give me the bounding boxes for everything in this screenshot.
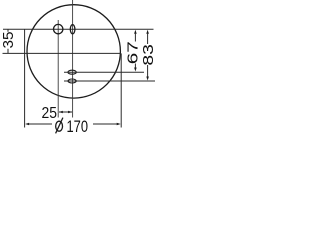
svg-text:35: 35 (0, 32, 17, 49)
screw slot 2 (68, 79, 76, 83)
node hole centerline vertical (57, 20, 59, 118)
svg-text:25: 25 (42, 105, 58, 122)
dimension 67 right (125, 30, 142, 72)
svg-text:170: 170 (67, 118, 89, 136)
keyhole slot top (70, 25, 75, 34)
wire horizontal centerline of circle y53 (3, 52, 121, 54)
screw slot 1 (68, 70, 76, 74)
wire slot2 extension line (64, 80, 155, 82)
dimension 35 left (0, 29, 17, 53)
dimension 25 bottom (42, 105, 73, 122)
mounting hole (54, 24, 63, 33)
wire right extension line (120, 53, 122, 127)
wire horizontal centerline through holes y29 (3, 28, 154, 30)
node slot centerline vertical (72, 0, 74, 118)
dimension 83 right (140, 30, 157, 81)
phi symbol (56, 121, 63, 131)
wire slot1 extension line (64, 71, 144, 73)
svg-text:83: 83 (140, 44, 157, 66)
dimension phi170 bottom (25, 29, 122, 136)
wire left extension line (24, 29, 26, 127)
fixture body circle φ170 (27, 5, 120, 98)
